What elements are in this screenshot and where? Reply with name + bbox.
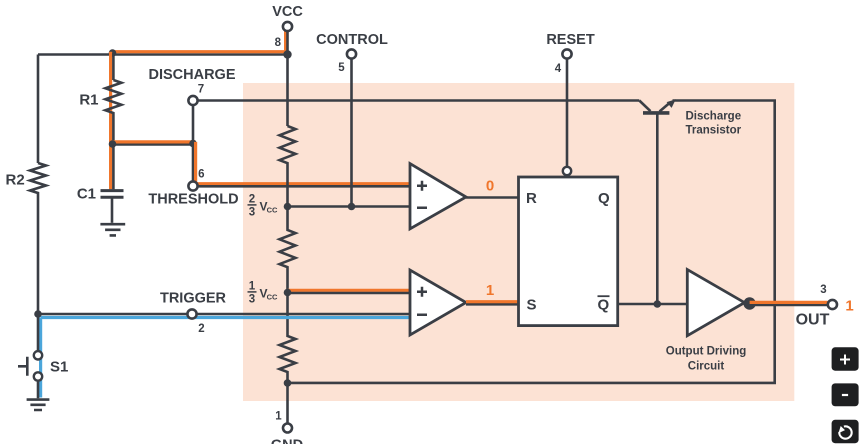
- terminal OUT pin 3: [828, 300, 837, 309]
- svg-text:RESET: RESET: [546, 32, 594, 48]
- wire: threshold vertical black: [192, 145, 195, 182]
- svg-text:5: 5: [338, 62, 345, 74]
- wire: emitter rail right side + bottom rail: [288, 101, 775, 383]
- wire: VCC rail top: [38, 53, 288, 56]
- wire: threshold orange vertical+horizontal: [196, 142, 410, 184]
- node: VCC/pin8 junction: [283, 50, 291, 58]
- switch S1: [34, 351, 42, 359]
- resistor (divider middle): [280, 207, 296, 294]
- resistor R1: [105, 80, 121, 145]
- ground (under C1): [100, 197, 125, 235]
- wire: 2/3 Vcc row: [288, 205, 411, 208]
- inverter bubble (reset input): [563, 167, 571, 175]
- resistor R2: [30, 163, 46, 314]
- wire: control vertical: [350, 59, 353, 207]
- node: trigger/R2 junction: [34, 310, 42, 318]
- svg-text:3: 3: [820, 284, 826, 296]
- wire: comparator2 output black: [466, 303, 519, 306]
- node: 2/3 divider junction: [284, 203, 292, 211]
- node: ground rail junction: [284, 379, 292, 387]
- wire: R1 bottom to C1: [112, 145, 115, 190]
- terminal THRESHOLD pin 6: [188, 181, 197, 190]
- svg-text:VCC: VCC: [272, 4, 303, 20]
- wire: S1 branch black top: [37, 314, 40, 351]
- button: increase: [832, 347, 859, 370]
- transistor Q1 (discharge): [643, 111, 669, 115]
- svg-text:Circuit: Circuit: [688, 361, 725, 373]
- terminal GND pin 1: [283, 424, 292, 433]
- node: R1/C1 junction: [109, 140, 117, 148]
- wire: Q-bar to output buffer: [618, 303, 688, 306]
- node: VCC/R1 junction: [109, 49, 117, 57]
- ground (under S1): [27, 400, 50, 410]
- wire: gnd stem: [286, 383, 289, 423]
- wire: reset vertical: [566, 59, 569, 167]
- svg-text:7: 7: [198, 84, 204, 96]
- svg-text:6: 6: [198, 169, 204, 181]
- svg-text:CC: CC: [267, 293, 278, 302]
- svg-text:CONTROL: CONTROL: [316, 32, 388, 48]
- button: reset simulation: [832, 420, 859, 443]
- svg-text:Q: Q: [598, 297, 610, 314]
- label 2/3 Vcc: [248, 194, 279, 219]
- SR latch U1: [519, 177, 618, 326]
- wire: divider column top: [286, 55, 289, 127]
- op-amp comparator 2: [410, 270, 466, 335]
- wire: R1 top lead: [112, 53, 115, 80]
- button: decrease: [832, 383, 859, 406]
- svg-text:1: 1: [275, 411, 282, 423]
- 555 IC body shaded region: [243, 83, 794, 401]
- svg-text:3: 3: [249, 294, 255, 306]
- svg-text:8: 8: [275, 37, 282, 49]
- node: control junction: [348, 203, 356, 211]
- wire: pin7 rail to transistor: [198, 99, 640, 102]
- wire: comparator1 output to R: [466, 196, 519, 199]
- wire: S1 to ground: [37, 381, 40, 399]
- svg-text:OUT: OUT: [796, 312, 830, 329]
- wire: VCC rail highlight (orange): [111, 31, 286, 52]
- svg-text:R2: R2: [6, 172, 25, 189]
- node: 1/3 divider junction: [284, 289, 292, 297]
- svg-text:2: 2: [198, 323, 204, 335]
- svg-text:THRESHOLD: THRESHOLD: [148, 192, 238, 208]
- node: Q-bar/base junction: [654, 300, 662, 308]
- svg-text:Output Driving: Output Driving: [666, 346, 747, 358]
- svg-text:1: 1: [249, 281, 256, 293]
- terminal RESET pin 4: [562, 49, 571, 58]
- svg-text:Discharge: Discharge: [686, 111, 742, 123]
- svg-text:CC: CC: [267, 206, 278, 215]
- svg-text:C1: C1: [77, 186, 96, 203]
- wire: 1/3 Vcc row orange: [288, 289, 411, 292]
- svg-text:S1: S1: [50, 359, 68, 376]
- resistor (divider top): [280, 126, 296, 207]
- svg-text:3: 3: [249, 207, 255, 219]
- svg-text:2: 2: [249, 194, 255, 206]
- svg-text:S: S: [527, 297, 537, 314]
- svg-text:1: 1: [486, 282, 494, 299]
- svg-text:R: R: [526, 190, 537, 207]
- wire: trigger rail black: [38, 313, 410, 316]
- svg-text:TRIGGER: TRIGGER: [160, 291, 227, 307]
- label 1/3 Vcc: [248, 281, 279, 306]
- svg-text:R1: R1: [79, 92, 98, 109]
- wire: pin7 down to junction: [192, 106, 195, 145]
- wire: junction row R1 to discharge/threshold (black): [113, 143, 193, 146]
- svg-text:Q: Q: [598, 190, 610, 207]
- svg-text:Transistor: Transistor: [686, 125, 742, 137]
- terminal TRIGGER pin 2: [187, 309, 196, 318]
- wire: comparator2 output orange: [466, 300, 519, 303]
- wire: junction row highlight (orange): [111, 140, 196, 143]
- resistor (divider bottom): [280, 293, 296, 383]
- terminal DISCHARGE pin 7: [188, 96, 197, 105]
- wire: threshold row black: [198, 185, 410, 188]
- node: output junction (filled): [743, 297, 755, 309]
- terminal VCC pin 8: [283, 22, 292, 31]
- svg-text:0: 0: [486, 178, 494, 195]
- op-amp comparator 1: [410, 164, 466, 229]
- wire: 1/3 Vcc row black: [288, 292, 411, 295]
- svg-text:4: 4: [555, 63, 562, 75]
- svg-text:GND: GND: [271, 438, 303, 444]
- wire: OUT orange: [750, 301, 828, 304]
- wire: trigger rail highlight (blue): [41, 316, 410, 319]
- terminal CONTROL pin 5: [347, 49, 356, 58]
- wire: VCC stub black: [286, 31, 289, 55]
- svg-text:1: 1: [845, 298, 853, 315]
- wire: transistor base vertical: [656, 115, 659, 305]
- capacitor C1: [101, 191, 124, 198]
- wire: R2 branch: [37, 55, 40, 164]
- wire: OUT black: [750, 304, 828, 307]
- wire: S1 branch blue highlight: [39, 318, 42, 398]
- wire: R1/C1 column highlight (orange straight through): [109, 52, 112, 190]
- node: discharge junction: [189, 140, 197, 148]
- output buffer U2: [687, 270, 744, 336]
- svg-text:DISCHARGE: DISCHARGE: [148, 67, 235, 83]
